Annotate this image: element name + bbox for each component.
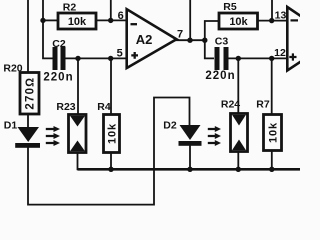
svg-text:R2: R2	[63, 2, 77, 14]
node output junction	[187, 38, 192, 43]
wire supply feed down to R20	[27, 0, 29, 73]
resistor R7	[256, 99, 281, 151]
svg-text:C3: C3	[215, 36, 229, 48]
svg-text:7: 7	[177, 29, 183, 41]
wire R24 bottom	[237, 151, 239, 169]
wire ground bus	[78, 168, 301, 171]
wire R24 top	[237, 58, 239, 114]
light arrows D1	[46, 126, 60, 146]
node R24 top junction	[236, 56, 241, 61]
wire R23 top	[77, 58, 79, 115]
svg-text:R24: R24	[221, 99, 240, 111]
wire up from pin13 node	[271, 0, 273, 21]
svg-text:10k: 10k	[267, 122, 279, 143]
svg-text:10k: 10k	[68, 16, 87, 28]
svg-text:10k: 10k	[106, 123, 118, 144]
wire D2 cathode to bus	[189, 145, 191, 169]
svg-text:13: 13	[275, 10, 287, 22]
node R4 bus junction	[108, 167, 113, 172]
svg-text:A2: A2	[136, 32, 153, 47]
wire up from pin6 node	[110, 0, 112, 20]
node R23 top junction	[75, 56, 80, 61]
svg-text:R7: R7	[256, 99, 270, 111]
wire R20 bottom to D1 anode	[27, 114, 29, 128]
svg-text:5: 5	[117, 48, 123, 60]
op-amp A2 minus sign	[131, 23, 138, 25]
node R2 left junction	[40, 18, 45, 23]
resistor R4	[97, 101, 119, 153]
node R4 top junction	[108, 56, 113, 61]
wire R4 top	[110, 58, 112, 115]
svg-text:270Ω: 270Ω	[25, 77, 37, 110]
node R5/C3 branch junction	[202, 38, 207, 43]
resistor R20	[3, 63, 39, 115]
wire C3 right to pin 12	[229, 57, 288, 59]
light arrows D2	[208, 126, 221, 146]
svg-text:D1: D1	[4, 120, 18, 132]
resistor R2	[58, 2, 96, 30]
svg-text:R5: R5	[223, 1, 237, 13]
wire R2 right to pin 6	[96, 19, 127, 21]
svg-text:12: 12	[274, 47, 286, 59]
node R7 bus junction	[269, 167, 274, 172]
wire R5 right to pin 13	[258, 20, 288, 22]
capacitor C2	[43, 38, 73, 84]
node R24 bus junction	[236, 167, 241, 172]
svg-text:R23: R23	[56, 101, 75, 113]
op-amp A2 plus sign	[131, 52, 138, 59]
svg-text:D2: D2	[163, 120, 177, 132]
wire D1 cathode to D2 anode chain	[28, 98, 190, 205]
LED D1	[4, 120, 40, 148]
capacitor C3	[205, 36, 235, 83]
svg-text:10k: 10k	[229, 16, 248, 28]
op-amp U2 (right, partial)	[287, 7, 320, 71]
svg-text:220n: 220n	[43, 72, 73, 84]
node pin13 junction	[269, 18, 274, 23]
wire up from output node	[189, 0, 191, 40]
svg-text:R20: R20	[3, 63, 22, 75]
node R7 top junction	[269, 56, 274, 61]
wire R7 bottom	[271, 150, 273, 169]
wire branch down to C3 left	[205, 40, 214, 58]
wire R2 left	[43, 19, 58, 21]
op-amp U2 plus sign	[289, 53, 296, 60]
LDR R24	[221, 99, 248, 152]
wire R23 bottom	[77, 152, 79, 170]
wire branch up to R5 left	[205, 21, 219, 40]
wire R7 top	[271, 58, 273, 115]
LED D2	[163, 120, 201, 146]
svg-text:C2: C2	[52, 38, 66, 50]
LDR R23	[56, 101, 86, 153]
svg-text:6: 6	[118, 10, 124, 22]
wire R4 bottom	[110, 152, 112, 169]
op-amp U2 minus sign	[291, 19, 299, 21]
op-amp A2	[127, 9, 177, 68]
wire C2 right to pin 5	[66, 57, 128, 59]
svg-text:220n: 220n	[205, 70, 235, 82]
wire A2 output	[175, 39, 205, 41]
wire feed down to C2/R2 node	[43, 0, 53, 58]
svg-text:R4: R4	[97, 101, 111, 113]
node D2 bus junction	[187, 167, 192, 172]
resistor R5	[219, 1, 258, 29]
node pin6 junction	[108, 18, 113, 23]
